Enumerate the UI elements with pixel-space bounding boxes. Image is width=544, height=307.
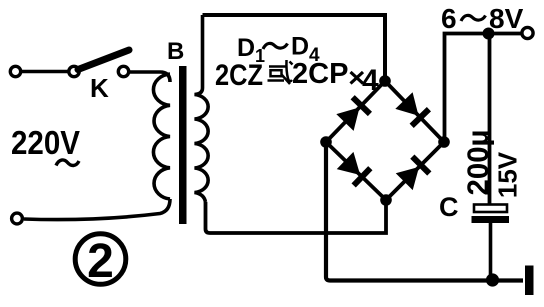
- label ~ (6~8V): [461, 15, 486, 21]
- svg-text:B: B: [167, 38, 184, 65]
- wire (top rail: secondary top to bridge top): [203, 15, 386, 81]
- capacitor C plate +: [474, 205, 507, 213]
- diode D4 (bottom to right): [396, 154, 432, 190]
- switch K pivot: [69, 66, 79, 76]
- bridge wires (diamond): [326, 81, 444, 200]
- diode D2 (top to right): [395, 92, 431, 128]
- svg-text:D: D: [291, 33, 309, 61]
- transformer B primary winding: [153, 74, 170, 199]
- svg-text:2CP: 2CP: [292, 58, 348, 90]
- wire B-R: [386, 142, 444, 200]
- node right: [438, 136, 450, 148]
- wire L-T: [326, 81, 385, 142]
- svg-text:K: K: [90, 73, 109, 103]
- node bottom: [380, 194, 392, 206]
- node top: [379, 75, 391, 87]
- hanzi "or" glyph: [268, 60, 293, 84]
- transformer core: [179, 66, 187, 224]
- wire (left node down, ground rail): [326, 142, 523, 281]
- wire (secondary bottom to bridge bottom): [206, 200, 387, 233]
- wire (right node up to output rail): [445, 34, 523, 143]
- svg-text:220V: 220V: [11, 124, 80, 161]
- transformer B secondary winding: [195, 15, 209, 202]
- svg-text:15V: 15V: [493, 151, 523, 198]
- svg-text:2: 2: [87, 235, 114, 288]
- svg-text:D: D: [237, 34, 255, 62]
- switch K contact: [118, 66, 128, 76]
- label x (times): [351, 72, 364, 84]
- terminal (220V bottom input): [12, 213, 23, 224]
- ground: [525, 266, 534, 296]
- wire L-B: [326, 142, 386, 200]
- label ~ (220V): [56, 160, 79, 166]
- wire T-R: [385, 81, 444, 142]
- wire (contact to primary): [129, 72, 170, 82]
- node (output junction): [483, 28, 495, 40]
- wire: [21, 70, 69, 74]
- node left: [320, 136, 332, 148]
- figure number circle 2: [75, 234, 126, 285]
- wire (primary bottom lead): [24, 199, 170, 220]
- label ~ (D1~D4): [263, 43, 288, 49]
- diode D3 (left to bottom): [337, 152, 373, 188]
- node (ground junction): [486, 273, 499, 286]
- capacitor C plate -: [472, 216, 510, 223]
- terminal (output +): [522, 27, 533, 38]
- diode D1 (left to top): [336, 95, 372, 131]
- svg-text:8V: 8V: [489, 3, 524, 34]
- svg-text:C: C: [439, 192, 459, 222]
- svg-text:6: 6: [441, 3, 457, 34]
- svg-text:200µ: 200µ: [462, 130, 495, 196]
- svg-text:2CZ: 2CZ: [215, 59, 263, 92]
- wire (junction down to capacitor): [488, 34, 492, 205]
- wire (capacitor to ground rail): [489, 223, 493, 280]
- terminal (220V top input): [10, 66, 20, 76]
- switch K blade: [78, 50, 129, 70]
